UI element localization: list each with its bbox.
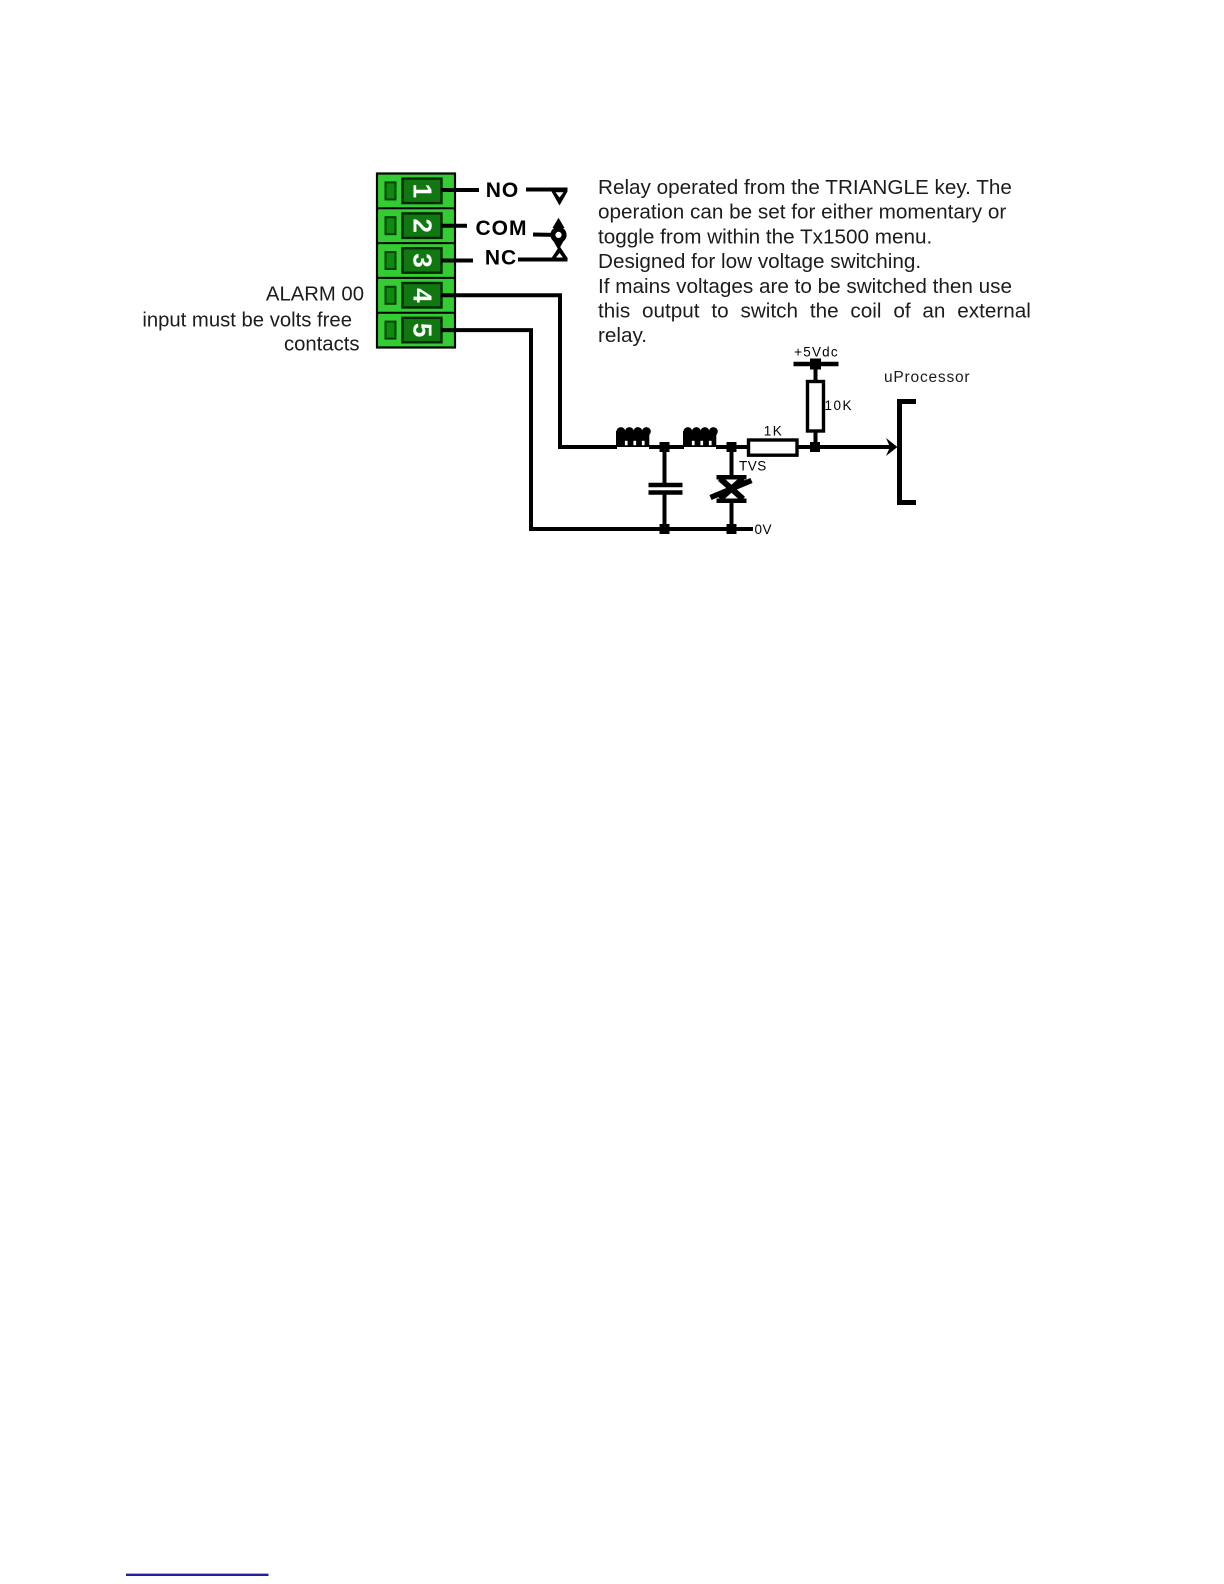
svg-text:contacts: contacts — [284, 333, 360, 355]
wire pin1 to NO label — [441, 188, 479, 192]
svg-text:3: 3 — [408, 253, 438, 267]
wire 1K to uProcessor — [797, 445, 891, 449]
svg-text:5: 5 — [408, 323, 438, 337]
pin 2 — [386, 213, 442, 238]
pin 3 — [386, 248, 442, 273]
svg-text:input must be volts free: input must be volts free — [142, 309, 352, 331]
resistor R2 10K — [808, 382, 824, 432]
arrow into uProcessor — [886, 438, 898, 456]
wire pin5 to 0V rail — [441, 330, 753, 529]
svg-text:ALARM 00: ALARM 00 — [266, 283, 364, 305]
wire L2 to 1K — [716, 445, 749, 449]
svg-text:this output to switch the coil: this output to switch the coil of an ext… — [598, 300, 1031, 323]
armature pivot ring — [553, 229, 564, 240]
pin 5 — [386, 318, 442, 343]
pin 1 — [386, 179, 442, 204]
+5Vdc power rail — [794, 359, 839, 383]
junction node (10K bottom) — [810, 442, 820, 452]
svg-text:TVS: TVS — [739, 459, 767, 474]
capacitor C1 — [649, 447, 683, 529]
svg-text:NC: NC — [485, 246, 517, 269]
pin 4 — [386, 283, 442, 308]
wire 10K to node — [814, 431, 818, 447]
junction node (TVS top) — [727, 442, 737, 452]
inductor L2 — [683, 427, 718, 447]
junction node (cap bottom) — [660, 524, 670, 534]
NO contact triangle — [552, 192, 568, 206]
junction node (TVS bottom) — [727, 524, 737, 534]
wire COM to armature pivot — [533, 233, 553, 237]
svg-text:+5Vdc: +5Vdc — [794, 345, 839, 360]
wire pin4 to filter (node A) — [441, 295, 617, 447]
armature lower link — [553, 240, 565, 251]
svg-text:relay.: relay. — [598, 324, 647, 347]
wire NC to contact — [518, 258, 568, 262]
resistor R1 1K — [749, 440, 798, 455]
uProcessor port bracket — [898, 399, 916, 505]
wire L1 to L2 — [649, 445, 684, 449]
wire pin3 to NC label — [441, 259, 473, 263]
wire NO to contact — [526, 188, 568, 192]
svg-text:Designed for low voltage switc: Designed for low voltage switching. — [598, 250, 921, 273]
wire pin2 stub — [441, 224, 467, 228]
description paragraph — [598, 176, 1031, 347]
svg-text:1: 1 — [408, 184, 438, 198]
TVS D1 (bidirectional suppressor) — [711, 447, 752, 529]
inductor L1 — [616, 427, 651, 447]
svg-text:operation can be set for eithe: operation can be set for either momentar… — [598, 201, 1006, 224]
svg-text:2: 2 — [408, 218, 438, 232]
junction node (cap top) — [660, 442, 670, 452]
svg-text:1K: 1K — [764, 424, 784, 439]
svg-text:toggle from within the Tx1500: toggle from within the Tx1500 menu. — [598, 225, 932, 248]
svg-text:NO: NO — [486, 179, 520, 202]
svg-text:COM: COM — [476, 217, 528, 240]
relay armature arrow up — [553, 218, 565, 230]
connector J1 (5-way terminal block) — [377, 174, 455, 348]
svg-text:If mains voltages are to be sw: If mains voltages are to be switched the… — [598, 275, 1012, 298]
svg-text:4: 4 — [408, 288, 438, 303]
label ALARM 00 note — [142, 283, 364, 355]
svg-text:10K: 10K — [825, 398, 854, 413]
svg-text:uProcessor: uProcessor — [884, 369, 970, 386]
blue underline rule — [126, 1574, 269, 1576]
svg-text:Relay operated from the TRIANG: Relay operated from the TRIANGLE key. Th… — [598, 176, 1012, 199]
svg-text:0V: 0V — [755, 522, 773, 537]
NC contact triangle — [551, 246, 568, 259]
